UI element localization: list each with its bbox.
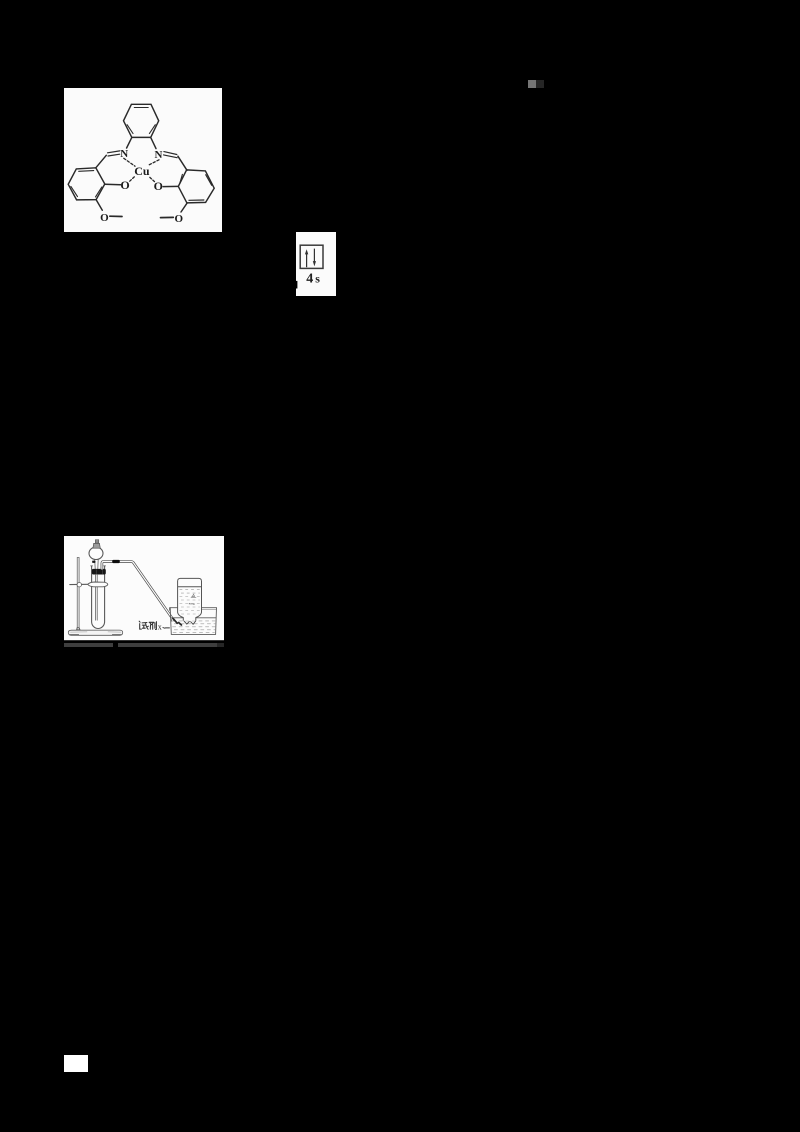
stand base inner edge (71, 631, 122, 633)
trough rim (170, 608, 217, 611)
figure 3: gas apparatus panel (64, 536, 224, 641)
bond left ring to OMe O (96, 200, 102, 211)
bottle water dashes (180, 590, 200, 614)
black notch on panel edge (293, 281, 297, 289)
right ring double bond inner lines (180, 174, 212, 200)
stand rod (77, 558, 79, 630)
caption bar segment 1 (64, 643, 113, 647)
C=N double bond left (108, 151, 120, 156)
collection bottle silhouette (178, 578, 202, 620)
bond ring to N right (151, 137, 156, 148)
collection bottle outline (178, 578, 202, 620)
svg-text:O: O (154, 179, 163, 193)
bond right ring to OMe O (181, 203, 187, 212)
clamp arm (70, 583, 88, 585)
C=N double bond right (164, 152, 178, 158)
rubber connector (112, 560, 120, 563)
small black fitting at funnel neck (92, 561, 95, 563)
bond CH to left ring (96, 155, 107, 168)
bubbles at bottle mouth (184, 621, 196, 624)
reagent label 剂 glyph (149, 622, 156, 630)
methyl line right (161, 216, 174, 218)
funnel neck cap (93, 543, 100, 548)
reagent label 试 glyph (139, 621, 148, 629)
trough water dashes (173, 621, 216, 632)
stand base (68, 630, 122, 635)
rod foot flare (76, 628, 80, 631)
svg-text:O: O (175, 213, 184, 225)
orbital box (300, 245, 323, 268)
dashed bond N left to Cu (124, 158, 135, 166)
stand base feet shading (70, 634, 122, 636)
clamp jaw (88, 582, 108, 587)
spin-down arrow (313, 249, 316, 267)
blank white box bottom left (64, 1055, 88, 1072)
dashed bond N right to Cu (148, 160, 159, 166)
test tube (92, 566, 105, 629)
trough walls and bottom (170, 608, 216, 635)
right benzene ring (178, 170, 214, 203)
caption bar segment 2 (118, 643, 217, 647)
label pointer line (163, 626, 170, 629)
bond left ring to O (105, 183, 121, 185)
test tube rim ticks (91, 565, 106, 567)
thistle stem (95, 559, 99, 620)
svg-text:Cu: Cu (134, 164, 150, 178)
gray marker square (528, 80, 536, 88)
svg-text:4: 4 (306, 272, 313, 287)
dashed bond O right to Cu (149, 176, 155, 181)
left ring double bond inner lines (71, 171, 102, 197)
bond ring to N left (127, 137, 132, 148)
bond right ring to O (163, 185, 178, 187)
top benzene ring (124, 104, 159, 137)
bottle tiny arrow mark (189, 603, 195, 605)
thistle funnel bulb (89, 547, 103, 559)
top ring double bond inner lines (127, 108, 155, 134)
svg-text:s: s (315, 272, 320, 286)
trough water level (171, 617, 215, 619)
bottle tiny triangle mark (191, 594, 196, 597)
delivery tube outer (102, 561, 173, 621)
trough rim inner line (202, 608, 216, 610)
rubber stopper (92, 569, 106, 575)
funnel top knob (95, 540, 99, 543)
dashed bond O left to Cu (130, 176, 135, 181)
svg-text:x: x (158, 623, 162, 632)
clamp boss (77, 583, 81, 587)
dark marker square (536, 80, 544, 88)
bond CH to right ring (178, 156, 187, 170)
delivery tube bore (102, 561, 173, 621)
spin-up arrow (305, 249, 308, 267)
figure 1: Cu complex structure panel (64, 88, 222, 232)
svg-text:N: N (155, 149, 163, 161)
left benzene ring (68, 168, 105, 200)
svg-text:O: O (100, 212, 109, 224)
methyl line left (110, 215, 122, 217)
svg-text:O: O (120, 178, 129, 192)
caption bar segment 3 (217, 643, 225, 646)
tube tip underwater (173, 618, 182, 625)
svg-text:N: N (120, 148, 128, 160)
figure 2: 4s orbital box panel (293, 232, 337, 296)
